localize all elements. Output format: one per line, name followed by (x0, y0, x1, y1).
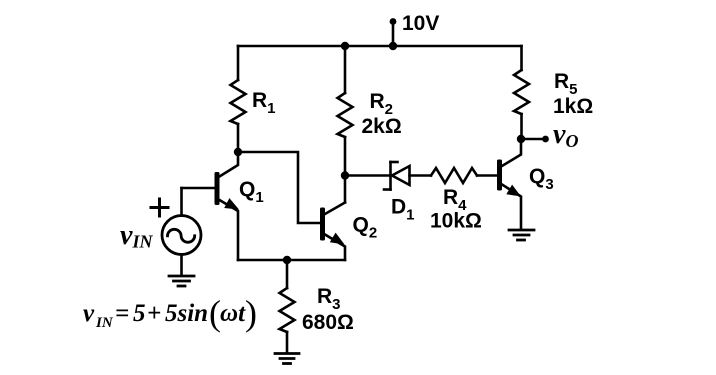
svg-text:R2: R2 (370, 90, 394, 118)
svg-text:vIN=5+5sin(ωt): vIN=5+5sin(ωt) (83, 293, 257, 333)
svg-text:10V: 10V (402, 12, 439, 35)
svg-text:R1: R1 (252, 89, 276, 117)
svg-text:vIN: vIN (120, 220, 153, 252)
svg-text:Q1: Q1 (239, 178, 264, 206)
svg-text:R5: R5 (554, 70, 578, 98)
svg-text:Q2: Q2 (353, 214, 378, 242)
svg-text:R3: R3 (317, 285, 341, 313)
svg-text:680Ω: 680Ω (302, 311, 354, 334)
svg-text:Q3: Q3 (529, 165, 554, 193)
svg-text:2kΩ: 2kΩ (362, 115, 402, 138)
svg-text:1kΩ: 1kΩ (553, 95, 593, 118)
svg-text:10kΩ: 10kΩ (430, 210, 482, 233)
svg-text:vO: vO (553, 119, 578, 151)
svg-text:D1: D1 (391, 196, 415, 224)
